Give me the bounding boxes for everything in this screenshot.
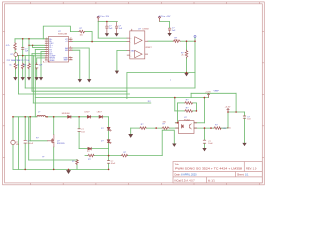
junction J3 at 29,45.3 bbox=[28, 45, 29, 46]
svg-text:10uF: 10uF bbox=[111, 163, 116, 165]
svg-text:9: 9 bbox=[46, 54, 47, 56]
diode D1 bbox=[68, 115, 71, 118]
wire 3v3 row bbox=[228, 111, 245, 113]
wire led col bbox=[108, 117, 110, 128]
svg-text:15: 15 bbox=[70, 40, 72, 42]
svg-text:Id: 1/1: Id: 1/1 bbox=[208, 180, 215, 183]
ground G4 bbox=[35, 78, 38, 80]
junction J27 at 68.5,169.4 bbox=[68, 169, 70, 171]
svg-text:VREF?: VREF? bbox=[145, 47, 152, 49]
diode D3 bbox=[99, 115, 102, 118]
ground G17 bbox=[78, 80, 81, 82]
led D5 bbox=[107, 140, 110, 143]
wire U1 VC to opamp bbox=[73, 41, 127, 43]
wire VREF line bbox=[191, 92, 236, 94]
ground G2 bbox=[21, 78, 24, 80]
svg-text:2: 2 bbox=[46, 40, 47, 42]
resistor R2 1k vertical bbox=[14, 63, 17, 69]
svg-text:16: 16 bbox=[70, 58, 72, 60]
connector P1 circle bbox=[11, 140, 15, 144]
power flag +3.3V busD bbox=[207, 94, 210, 98]
wire pin7 to gnd5 bbox=[41, 51, 45, 53]
ground G15 bbox=[67, 171, 71, 174]
svg-text:8: 8 bbox=[70, 56, 71, 58]
wire busC bbox=[19, 93, 130, 95]
inductor L1 bbox=[37, 115, 45, 116]
noconnect flag circle bbox=[194, 35, 196, 37]
wire U1 emitter B to gnd bbox=[73, 50, 80, 79]
title block bbox=[173, 162, 262, 183]
wire feedback loop over U1 bbox=[43, 26, 79, 39]
junction J13 at 236.1,112 bbox=[235, 111, 237, 113]
wire cap9 col bbox=[78, 117, 80, 129]
svg-text:14: 14 bbox=[70, 49, 72, 51]
wire R1 bottom to gnd bbox=[14, 50, 16, 53]
svg-text:+12V to +15V: +12V to +15V bbox=[158, 15, 171, 18]
wire pin4 bbox=[29, 44, 45, 46]
svg-text:+3.3V: +3.3V bbox=[225, 107, 231, 109]
resistor R3 vertical bbox=[21, 63, 24, 69]
junction J5 at 29,38.8 bbox=[28, 38, 30, 40]
svg-text:IRF3205: IRF3205 bbox=[57, 143, 66, 145]
capacitor C9 bbox=[78, 128, 81, 130]
svg-text:11: 11 bbox=[70, 47, 72, 49]
resistor R10 horizontal bbox=[121, 154, 128, 157]
frame ticks bbox=[3, 2, 265, 185]
svg-text:10: 10 bbox=[45, 57, 47, 59]
wire opto r2 loop bbox=[175, 110, 185, 112]
svg-text:7: 7 bbox=[46, 50, 47, 52]
svg-text:5: 5 bbox=[46, 46, 47, 48]
wire opto r1 loop bbox=[178, 102, 185, 104]
svg-text:10k: 10k bbox=[175, 40, 178, 42]
resistor R15 horizontal 3v3 pullup bbox=[214, 127, 221, 130]
junction J7 at 106.9,21.5 bbox=[106, 21, 108, 23]
svg-text:1: 1 bbox=[46, 38, 47, 40]
opamp U2 pin stubs bbox=[127, 29, 148, 55]
wire R3 drop bbox=[28, 39, 30, 63]
junction J29 at 177.5,122.8 bbox=[177, 122, 179, 124]
wire cap8 col bbox=[24, 117, 26, 140]
svg-text:VREF: VREF bbox=[214, 91, 220, 93]
wire opto left row bbox=[131, 127, 140, 129]
ic U3 pin stubs bbox=[175, 123, 197, 128]
junction J24 at 108.6,155.6 bbox=[108, 155, 110, 157]
junction J9 at 195,41.2 bbox=[194, 40, 196, 42]
capacitor C4 bbox=[35, 64, 38, 66]
ground G7 bbox=[115, 34, 118, 36]
wire pin5 stair bbox=[32, 45, 34, 47]
power label +3.3V right bbox=[227, 109, 230, 113]
ground G1 bbox=[14, 78, 17, 80]
wire busA riser bbox=[24, 56, 26, 88]
junction J8 at 186.5,41.2 bbox=[186, 40, 188, 42]
wire v18 bbox=[17, 117, 19, 170]
svg-text:PC817: PC817 bbox=[184, 119, 191, 121]
ground G15 stub bbox=[68, 169, 70, 170]
ground G16 bbox=[88, 80, 91, 82]
resistor R8 horizontal bbox=[88, 154, 95, 157]
junction J20 at 30.2,116.8 bbox=[29, 116, 31, 118]
wire cap12 bbox=[204, 128, 206, 140]
junction J12 at 204.4,97.6 bbox=[204, 97, 206, 99]
capacitor C10 bbox=[107, 160, 110, 162]
resistor R13 horizontal opto top bbox=[185, 102, 193, 105]
wire r-vert col bbox=[76, 158, 78, 161]
junction J14 at 228,112 bbox=[227, 111, 229, 113]
svg-text:GND: GND bbox=[131, 51, 136, 53]
junction J26 at 53.7,169.4 bbox=[53, 169, 55, 171]
svg-text:3: 3 bbox=[46, 42, 47, 44]
svg-text:LED?: LED? bbox=[97, 112, 103, 114]
wire busD 3.3V rail bbox=[35, 97, 208, 99]
opamp U2B triangle bbox=[135, 50, 142, 57]
ground G12 bbox=[173, 144, 176, 146]
ground G11 bbox=[129, 134, 133, 137]
wire conn drop bbox=[12, 117, 14, 141]
junction J16 at 211,128.1 bbox=[210, 127, 212, 129]
wire +12V rail1 bbox=[98, 21, 117, 23]
diode D2 bbox=[87, 115, 90, 118]
ground G9 bbox=[115, 71, 118, 73]
svg-text:x: x bbox=[170, 79, 171, 81]
junction J21 at 47,116.8 bbox=[46, 116, 48, 118]
resistor R5 horizontal (loop) bbox=[79, 30, 85, 33]
ground G3 bbox=[28, 78, 31, 80]
wire fb resistor leg bbox=[186, 41, 188, 50]
svg-text:2k: 2k bbox=[181, 55, 183, 57]
wire long vertical to busA bbox=[194, 41, 196, 88]
wire bottom rail bbox=[13, 168, 109, 170]
junction J11 at 174.8,97.6 bbox=[174, 97, 176, 99]
ground G10 bbox=[185, 73, 188, 75]
wire row 160 bbox=[29, 159, 77, 161]
wire VIN rail bbox=[13, 116, 37, 118]
svg-text:Date: 8 APRIL 2020: Date: 8 APRIL 2020 bbox=[175, 173, 198, 176]
svg-text:REF: REF bbox=[64, 60, 69, 62]
power flag +12V no2 bbox=[158, 16, 160, 21]
capacitor C11 bbox=[243, 115, 246, 117]
wire bottom row 155 bbox=[85, 155, 88, 157]
wire pin8 to busB bbox=[32, 53, 45, 55]
svg-text:5k: 5k bbox=[17, 65, 19, 67]
sheet frame bbox=[3, 2, 265, 185]
ground G6 bbox=[105, 34, 108, 36]
resistor R11 horizontal opto left bbox=[140, 127, 147, 130]
power flag +12V no1 bbox=[97, 16, 99, 21]
wire cap bottom bbox=[22, 49, 24, 55]
svg-text:+3.3V: +3.3V bbox=[205, 92, 211, 94]
wire busE riser bbox=[32, 56, 34, 103]
svg-text:LM358: LM358 bbox=[143, 28, 150, 30]
svg-text:+12V to +15V: +12V to +15V bbox=[97, 15, 110, 18]
wire pin9 bbox=[33, 55, 45, 57]
wire U1 emitter A to gnd bbox=[73, 48, 90, 80]
wire busB bbox=[32, 90, 127, 92]
junction J4 at 32.6,45.3 bbox=[32, 45, 33, 46]
svg-text:Sheet: 1/1: Sheet: 1/1 bbox=[237, 173, 249, 176]
ic U1 pin names bbox=[49, 39, 68, 62]
svg-text:KiCad E.D.A. 4.0.7: KiCad E.D.A. 4.0.7 bbox=[175, 180, 196, 183]
svg-text:MCU: MCU bbox=[227, 128, 232, 130]
svg-text:8: 8 bbox=[46, 52, 47, 54]
svg-text:LED?: LED? bbox=[85, 112, 91, 114]
svg-text:10k: 10k bbox=[80, 34, 83, 36]
capacitor C1 bbox=[21, 47, 24, 49]
wire cap drop bbox=[22, 39, 24, 48]
wire mosfet col bbox=[53, 117, 55, 135]
junction J18 at 13,116.8 bbox=[12, 116, 14, 118]
wire opamp gnd leg bbox=[117, 50, 127, 71]
svg-text:POT DEADTIME RT CT 10k: POT DEADTIME RT CT 10k bbox=[7, 59, 30, 62]
ic U1 SG3524 bbox=[48, 37, 68, 63]
resistor R7 vertical (fb) bbox=[185, 50, 188, 58]
opamp U2 box bbox=[130, 31, 145, 59]
opamp U2A triangle bbox=[135, 37, 142, 44]
svg-text:12: 12 bbox=[70, 38, 72, 40]
opto transistor bbox=[189, 124, 191, 128]
wire cap11 bbox=[244, 112, 246, 116]
wire net VREF-left top rail bbox=[15, 38, 48, 40]
svg-text:MUR460: MUR460 bbox=[62, 113, 71, 115]
wire gnd long line bbox=[127, 72, 195, 74]
led D4 bbox=[107, 127, 110, 130]
junction J10 at 186.5,72.6 bbox=[186, 72, 188, 74]
resistor R4 vertical bbox=[28, 63, 31, 69]
wire busE RX bbox=[33, 102, 151, 104]
capacitor C12 bbox=[203, 139, 206, 141]
junction J28 at 108.6,169.4 bbox=[108, 169, 110, 171]
wire pin10 to C4 bbox=[37, 57, 45, 59]
wire R2 top bbox=[22, 56, 24, 63]
wire opto right bottom bbox=[194, 127, 214, 129]
wire v28 bbox=[28, 117, 30, 160]
wire 3v3 pullup bbox=[221, 127, 228, 129]
wire opto right top bbox=[194, 122, 204, 124]
svg-text:SG3524N: SG3524N bbox=[58, 34, 68, 36]
capacitor C6 bbox=[116, 22, 118, 26]
junction J17 at 156.2,128.1 bbox=[155, 127, 157, 129]
junction J25 at 25.2,169.4 bbox=[24, 169, 26, 171]
svg-text:4: 4 bbox=[46, 44, 47, 46]
wire gate Q1 bbox=[29, 117, 31, 141]
capacitor C5 bbox=[106, 22, 108, 26]
svg-text:A_CTRL: A_CTRL bbox=[43, 60, 50, 63]
junction J6 at 92.1,41.6 bbox=[91, 41, 93, 43]
svg-text:100uF: 100uF bbox=[27, 143, 33, 145]
wire circle stub bbox=[194, 37, 196, 41]
opto led bbox=[182, 125, 184, 128]
wire snub row bbox=[79, 148, 88, 150]
ground G8 bbox=[168, 33, 171, 35]
wire pot wiper row bbox=[18, 55, 34, 57]
potentiometer RV1 bbox=[14, 53, 18, 57]
wire R top leg bbox=[14, 39, 16, 43]
wire cap10 bbox=[108, 156, 110, 161]
wire flag2 rail bbox=[160, 22, 170, 29]
ic U1 pin stubs left bbox=[45, 39, 73, 60]
svg-text:REV: 1.0: REV: 1.0 bbox=[246, 167, 257, 171]
resistor R6 horizontal (opamp out) bbox=[173, 40, 181, 43]
ground G13 bbox=[203, 148, 206, 150]
diode D6 bbox=[88, 147, 91, 150]
svg-text:PWM SONG SG 3524 + TC 4424 + L: PWM SONG SG 3524 + TC 4424 + LM358 bbox=[175, 167, 242, 171]
capacitor C8 bbox=[24, 139, 27, 141]
resistor R9 vertical bbox=[76, 159, 79, 164]
resistor R1 4.7k vertical bbox=[14, 42, 17, 49]
ic U3 opto box bbox=[179, 121, 195, 134]
svg-text:10k: 10k bbox=[23, 65, 26, 67]
ground G5 bbox=[40, 78, 43, 80]
wire opamp out bbox=[148, 40, 173, 42]
junction J23 at 79.1,116.8 bbox=[78, 116, 80, 118]
junction J30 at 196.4,110.9 bbox=[196, 110, 198, 112]
junction J15 at 204.5,128.1 bbox=[204, 127, 206, 129]
transistor Q1 bbox=[47, 135, 54, 148]
wire staple risers bbox=[126, 73, 128, 99]
junction J22 at 53.7,116.8 bbox=[53, 116, 55, 118]
svg-text:10uF: 10uF bbox=[208, 143, 213, 145]
junction J2 at 22.7,55.6 bbox=[22, 55, 24, 57]
resistor R14 horizontal opto mid bbox=[185, 110, 193, 113]
junction J19 at 25.2,116.8 bbox=[24, 116, 26, 118]
svg-text:6: 6 bbox=[46, 48, 47, 50]
resistor R12 horizontal opto left2 bbox=[162, 127, 169, 130]
wire busA bbox=[25, 87, 195, 89]
capacitor C7 bbox=[168, 27, 171, 29]
svg-text:4.7k: 4.7k bbox=[6, 45, 10, 47]
wire pin6 to busD bbox=[35, 49, 45, 51]
wire opamp in+ feed bbox=[97, 22, 99, 39]
wire busC riser bbox=[18, 56, 20, 94]
junction J1 at 22.7,38.8 bbox=[22, 38, 24, 40]
ground G14 bbox=[243, 143, 246, 145]
ic U1 pin numbers bbox=[45, 38, 72, 61]
svg-text:1k: 1k bbox=[9, 65, 11, 67]
